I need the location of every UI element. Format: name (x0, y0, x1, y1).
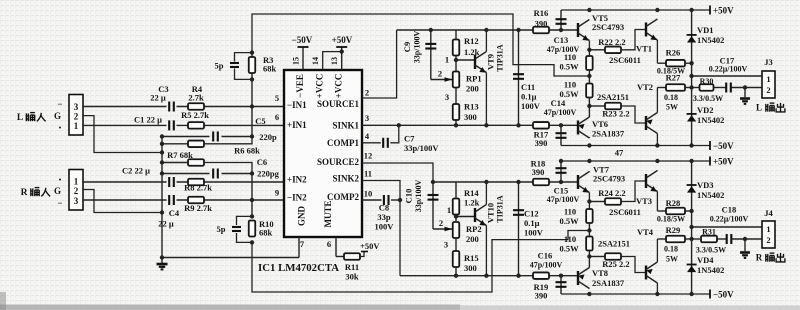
junction 110 midpoint L (587, 74, 591, 78)
svg-text:R30: R30 (700, 77, 714, 86)
resistor R11 30k (344, 253, 360, 260)
wire rail to R12 (455, 30, 457, 40)
svg-text:110: 110 (564, 234, 576, 244)
junction J3 ground tap (743, 85, 747, 89)
wire R6 to -IN1 column (204, 137, 252, 144)
junction VT6 collector/-50V rail (587, 143, 591, 147)
svg-text:R26: R26 (666, 48, 681, 58)
resistor R6 68k (188, 141, 204, 148)
svg-text:C14: C14 (551, 98, 566, 108)
svg-text:110: 110 (564, 80, 576, 90)
wire feedback L (R3 to 110 midpoint) (252, 14, 588, 76)
svg-text:VT3: VT3 (636, 196, 652, 206)
junction bus/R7 row (160, 160, 164, 164)
power +50V tick (rail R) (709, 157, 711, 166)
junction node -IN1 / R3 (250, 104, 254, 108)
svg-text:1N5402: 1N5402 (697, 115, 724, 125)
wire R29 to output column (685, 238, 692, 240)
wire to J3 ground (744, 88, 746, 98)
svg-text:L: L (756, 103, 762, 113)
svg-text:−IN1: −IN1 (287, 100, 307, 110)
wire SINK1 row (399, 124, 578, 126)
svg-text:110: 110 (564, 52, 576, 62)
svg-text:−VEE: −VEE (295, 74, 305, 98)
wire bus to R6 (162, 143, 188, 145)
wire R26 to output column (685, 62, 692, 64)
wire bus to C5 (162, 136, 210, 138)
svg-text:2SC4793: 2SC4793 (593, 174, 625, 184)
power -50V tick (rail R) (709, 290, 711, 299)
resistor R25 2.2 (605, 253, 621, 260)
svg-text:1.2k: 1.2k (464, 198, 480, 208)
wire C2 through R8 to +IN2 (177, 181, 285, 183)
svg-text:C7: C7 (404, 134, 415, 144)
svg-text:−IN2: −IN2 (287, 193, 307, 203)
svg-text:1: 1 (447, 205, 451, 215)
svg-text:+50V: +50V (360, 241, 380, 251)
wire C16 column (560, 276, 562, 294)
svg-text:VT6: VT6 (592, 119, 608, 129)
svg-text:300: 300 (464, 112, 477, 122)
wire RP1 to R13 (455, 88, 457, 105)
RP2 wiper arrow (445, 227, 453, 232)
svg-text:200: 200 (466, 234, 479, 244)
svg-text:0.18/5W: 0.18/5W (657, 215, 685, 224)
resistor R16 390 (533, 27, 549, 34)
junction C9 top (429, 28, 433, 32)
resistor 110 0.5W (3) (586, 209, 593, 223)
junction VT5 emitter/R22 (587, 48, 591, 52)
svg-text:COMP1: COMP1 (327, 138, 359, 148)
wire C3 to R4 to -IN1 node (177, 106, 245, 108)
svg-text:C9: C9 (402, 42, 412, 52)
wire feedback R (R10 to 110 midpoint) (252, 231, 588, 293)
svg-text:22 μ: 22 μ (150, 93, 166, 103)
resistor R7 68k (188, 159, 204, 166)
wire bus to C6 (162, 173, 210, 175)
svg-text:1: 1 (766, 74, 770, 84)
svg-text:R14: R14 (464, 188, 479, 198)
junction output to J3 pin1 (689, 74, 693, 78)
svg-text:0.5W: 0.5W (559, 62, 579, 72)
svg-text:C16: C16 (538, 251, 553, 261)
svg-text:VD1: VD1 (697, 25, 714, 35)
connector J2 R-input box (69, 170, 83, 211)
wire C9 to RP1 wiper (431, 79, 453, 81)
svg-text:3: 3 (74, 196, 79, 206)
capacitor 5p (L) (230, 63, 239, 67)
wire C13 column (560, 10, 562, 30)
resistor R23 2.2 (605, 103, 621, 110)
wire stub to ground (161, 258, 163, 264)
svg-text:C18: C18 (722, 205, 737, 215)
svg-text:1.2k: 1.2k (464, 47, 480, 57)
svg-text:33p/100V: 33p/100V (404, 143, 439, 153)
svg-text:12: 12 (364, 151, 373, 161)
svg-text:C6: C6 (257, 157, 267, 167)
junction VT7 emitter/R24 (587, 199, 591, 203)
svg-text:SOURCE2: SOURCE2 (317, 157, 360, 167)
wire output to R31 (692, 238, 700, 240)
wire 110-4 to VT8 emitter (588, 251, 590, 268)
svg-text:6: 6 (327, 239, 331, 249)
resistor 110 0.5W (2) (586, 84, 593, 98)
wire VT2 emitter to R27 (657, 87, 666, 89)
wire output to R30 (692, 87, 699, 89)
svg-text:390: 390 (532, 167, 545, 177)
resistor R26 0.18/5W (666, 60, 685, 66)
svg-text:R22 2.2: R22 2.2 (598, 37, 625, 47)
svg-text:220pg: 220pg (257, 169, 279, 179)
junction R10 top (250, 214, 254, 218)
power -50V bar (IC) (298, 46, 309, 48)
wire C18 to J4 pin 2 (732, 238, 763, 240)
capacitor C9 33p/100V (425, 44, 436, 49)
capacitor C10 33p/100V (428, 195, 439, 200)
wire R31 to C18 (717, 238, 726, 240)
wire C14 column (560, 125, 562, 145)
wire MUTE pin down (335, 237, 337, 257)
wire R30 to C17 (714, 87, 727, 89)
svg-text:3: 3 (444, 240, 448, 250)
power +50V tick (rail L) (709, 6, 711, 15)
RP1 wiper arrow (445, 77, 453, 82)
wire output/diode column L (691, 10, 693, 146)
capacitor C14 47p/100V (556, 133, 567, 138)
svg-text:11: 11 (364, 169, 372, 179)
svg-text:C2 22 μ: C2 22 μ (122, 166, 150, 176)
resistor R3 68k (249, 57, 256, 73)
junction C15 bottom/source2 row (559, 180, 563, 184)
wire C10 to RP2 wiper (433, 228, 453, 230)
resistor R17 390 (533, 122, 549, 129)
resistor 110 0.5W (1) (586, 56, 593, 70)
wire L-in pin3 to C3 (83, 106, 167, 108)
svg-text:COMP2: COMP2 (327, 192, 359, 202)
wire to R22 (589, 49, 605, 51)
svg-text:+IN2: +IN2 (287, 175, 307, 185)
junction VT10 collector/source2 row (484, 180, 488, 184)
svg-text:47p/100V: 47p/100V (544, 108, 577, 117)
svg-text:22 μ: 22 μ (158, 219, 174, 229)
transistor VT2 2SA2151 (646, 88, 657, 146)
svg-text:RP2: RP2 (466, 224, 482, 234)
junction output node R (689, 237, 693, 241)
svg-text:47: 47 (615, 148, 624, 158)
junction output node L (689, 85, 693, 89)
wire GND pin down (298, 237, 300, 258)
svg-text:R28: R28 (666, 198, 681, 208)
svg-text:1N5402: 1N5402 (697, 190, 724, 200)
wire 110-2 to VT6 emitter (588, 98, 590, 118)
wire +VCC pin 14 jog (323, 52, 342, 70)
resistor R8 2.7k (188, 179, 204, 186)
wire -VEE pin 15 to -50V (302, 47, 304, 70)
capacitor C3 22u (169, 102, 174, 112)
wire R4 node to IC pin5 (244, 106, 284, 108)
resistor 110 0.5W (4) (586, 237, 593, 251)
svg-text:+VCC: +VCC (315, 74, 325, 99)
wire R22 to VT1 base (621, 30, 646, 50)
junction bus/R6 row (160, 142, 164, 146)
junction R28/output column (689, 209, 693, 213)
svg-text:2SC6011: 2SC6011 (609, 55, 641, 65)
svg-text:5W: 5W (666, 255, 678, 264)
svg-text:1N5402: 1N5402 (697, 35, 724, 45)
svg-text:R24 2.2: R24 2.2 (598, 188, 625, 198)
svg-text:+50V: +50V (713, 6, 734, 16)
svg-text:C4: C4 (169, 208, 180, 218)
svg-text:R31: R31 (702, 228, 716, 237)
wire VT1 emitter to R26 (657, 62, 666, 64)
capacitor C6 220p (213, 169, 218, 179)
junction R3 bottom (250, 77, 254, 81)
wire R10 column top (251, 200, 253, 216)
svg-text:R7 68k: R7 68k (167, 150, 193, 160)
wire L-in pin1 to C1 (83, 124, 167, 126)
junction C10/source2 row (431, 180, 435, 184)
wire output to J3 pin 1 (692, 75, 762, 77)
resistor R27 0.18 5W (666, 84, 685, 91)
svg-text:+VCC: +VCC (334, 74, 344, 99)
junction C16 top/sink2 row (559, 274, 563, 278)
wire 110-1 to 110-2 (588, 70, 590, 84)
svg-text:GND: GND (297, 206, 307, 227)
svg-text:0.22μ/100V: 0.22μ/100V (710, 215, 749, 224)
wire to J4 ground (744, 239, 746, 251)
svg-text:0.5W: 0.5W (559, 244, 579, 254)
junction VT9 emitter/sink row (484, 123, 488, 127)
resistor R12 1.2k (453, 40, 460, 56)
wire R11 to +50V (360, 252, 364, 257)
capacitor 5p (R) (232, 227, 241, 231)
transistor VT10 TIP31A (475, 182, 486, 276)
wire SINK2 pin11 drop (362, 181, 400, 276)
svg-text:G: G (54, 186, 61, 196)
svg-text:100V: 100V (375, 222, 395, 232)
junction VT3 collector/+50V rail (655, 159, 659, 163)
junction VT9 collector/source row (484, 28, 488, 32)
wire column down to -IN2 row (251, 174, 253, 201)
svg-text:R29: R29 (666, 225, 681, 235)
svg-text:68k: 68k (259, 228, 273, 238)
junction R26/output column (689, 61, 693, 65)
transistor VT1 2SC6011 (646, 19, 657, 63)
resistor R30 3.3/0.5W (700, 84, 714, 91)
connector J3 box (762, 71, 775, 98)
wire output/diode column R (691, 161, 693, 294)
junction C14 top/sink row (559, 123, 563, 127)
svg-text:VD3: VD3 (697, 180, 714, 190)
junction VT5 collector/+50V rail (587, 8, 591, 12)
svg-text:VD4: VD4 (697, 255, 714, 265)
wire row to R14 (455, 182, 457, 199)
wire C11 column (518, 30, 520, 125)
potentiometer RP2 200 (453, 222, 460, 238)
power +50V bar (IC) (336, 46, 347, 48)
wire 5p cap bottom to R3 (235, 69, 253, 80)
wire +50V rail R (561, 160, 710, 162)
wire C1 through R5 to +IN1 (177, 124, 285, 126)
svg-text:3: 3 (445, 92, 449, 102)
svg-text:5p: 5p (215, 61, 224, 71)
junction R15/SINK2 (454, 274, 458, 278)
svg-text:R6 68k: R6 68k (234, 146, 260, 156)
transistor VT6 2SA1837 (578, 117, 589, 138)
svg-text:2.7k: 2.7k (188, 93, 204, 103)
wire COMP2 pin10 to C8 (362, 199, 382, 201)
junction bus/C6 row (160, 171, 164, 175)
wire 110-3 to 110-4 (588, 223, 590, 237)
svg-text:390: 390 (535, 291, 548, 301)
junction -IN2 / R10 (250, 198, 254, 202)
svg-text:33p/100V: 33p/100V (414, 180, 423, 213)
wire R7 to -IN2 column (204, 163, 252, 174)
wire R-in pin2 ground path (83, 190, 162, 213)
capacitor C11 0.1u/100V (513, 74, 524, 79)
svg-text:33p/100V: 33p/100V (413, 31, 422, 64)
wire VT3 emitter to R28 (657, 210, 666, 212)
svg-text:3: 3 (74, 102, 79, 112)
svg-text:6: 6 (275, 112, 279, 122)
svg-text:47p/100V: 47p/100V (547, 195, 580, 204)
junction ground bus / R-in G (160, 210, 164, 214)
svg-text:1: 1 (74, 121, 79, 131)
capacitor C8 33p (384, 195, 389, 205)
svg-text:R: R (756, 253, 763, 263)
svg-text:1: 1 (74, 177, 79, 187)
wire output to J4 pin 1 (692, 226, 762, 228)
capacitor C1 22u (169, 120, 174, 130)
svg-text:R23 2.2: R23 2.2 (602, 109, 629, 119)
svg-text:2SA1837: 2SA1837 (592, 129, 625, 139)
wire C7 to SINK1 row (390, 125, 399, 143)
junction VD2/-50V rail (689, 143, 693, 147)
svg-text:3.3/0.5W: 3.3/0.5W (693, 94, 723, 103)
wire R3 to 5p cap top (235, 53, 253, 62)
svg-text:C1 22 μ: C1 22 μ (134, 115, 162, 125)
svg-text:C11: C11 (521, 82, 535, 92)
svg-text:1: 1 (766, 224, 770, 234)
svg-text:+50V: +50V (713, 157, 734, 167)
wire bus to R7 (162, 162, 188, 164)
junction VD4/-50V rail (689, 292, 693, 296)
junction 110 midpoint R (587, 228, 591, 232)
svg-text:0.5W: 0.5W (559, 216, 579, 226)
resistor R31 3.3/0.5W (701, 236, 717, 243)
svg-text:RP1: RP1 (466, 74, 482, 84)
wire COMP1 pin4 to C7 (362, 142, 381, 144)
resistor R4 2.7k (188, 103, 204, 110)
junction VT8 collector/-50V rail (587, 292, 591, 296)
wire SOURCE1 row (397, 29, 578, 31)
capacitor C16 47p/100V (556, 282, 567, 287)
wire R25 to VT4 base (621, 257, 646, 273)
svg-text:2: 2 (74, 186, 79, 196)
junction VD3/+50V rail (689, 159, 693, 163)
wire C5 to node column (222, 136, 253, 138)
junction VT7 collector/+50V rail (587, 159, 591, 163)
svg-text:SOURCE1: SOURCE1 (317, 99, 360, 109)
resistor R10 68k (249, 221, 256, 237)
diode VD2 1N5402 (687, 114, 697, 122)
capacitor C13 47p/100V (556, 19, 567, 24)
svg-text:14: 14 (311, 57, 320, 65)
svg-text:C15: C15 (554, 186, 569, 196)
wire C10 column (432, 182, 434, 229)
svg-text:390: 390 (535, 138, 548, 148)
junction VT1 collector/+50V rail (655, 8, 659, 12)
svg-text:VT1: VT1 (636, 44, 652, 54)
transistor VT4 2SA2151 (646, 239, 657, 294)
diode VD4 1N5402 (687, 265, 697, 273)
wire +50V rail L (561, 9, 710, 11)
svg-text:VT8: VT8 (592, 268, 608, 278)
junction VT6 emitter/R23 (587, 104, 591, 108)
junction R3 top (250, 50, 254, 54)
svg-text:33p: 33p (377, 212, 391, 222)
resistor R28 0.18/5W (666, 208, 685, 215)
resistor R5 2.7k (188, 122, 204, 128)
svg-text:300: 300 (464, 263, 477, 273)
svg-text:R12: R12 (464, 36, 479, 46)
junction C13 bottom/source row (559, 28, 563, 32)
junction VT2 collector/-50V rail (655, 143, 659, 147)
svg-text:5: 5 (275, 93, 279, 103)
junction C11 top (516, 28, 520, 32)
svg-text:R9 2.7k: R9 2.7k (184, 203, 212, 213)
transistor VT7 2SC4793 (578, 171, 589, 209)
transistor VT3 2SC6011 (646, 171, 657, 212)
wire SOURCE2 row (433, 181, 578, 183)
junction node 1 (R) (454, 214, 458, 218)
svg-text:TIP31A: TIP31A (496, 44, 505, 71)
junction C8/SINK2 drop (398, 198, 402, 202)
power -50V tick (rail L) (709, 141, 711, 150)
svg-text:R8 2.7k: R8 2.7k (184, 183, 212, 193)
svg-text:15: 15 (292, 57, 301, 65)
power +50V tick (MUTE) (361, 251, 368, 253)
svg-text:L: L (17, 113, 23, 123)
svg-text:C12: C12 (524, 209, 539, 219)
wire C15 column (560, 161, 562, 182)
resistor R9 2.7k (188, 197, 204, 204)
ground bus vertical (161, 137, 163, 259)
svg-text:2: 2 (365, 88, 369, 98)
svg-text:VT9: VT9 (486, 54, 496, 70)
svg-text:−: − (57, 198, 62, 208)
transistor VT8 2SA1837 (578, 268, 589, 289)
svg-text:2SA2151: 2SA2151 (597, 92, 629, 102)
svg-text:2: 2 (438, 69, 442, 79)
wire node1 to VT10 base (456, 216, 475, 218)
svg-text:−: − (57, 99, 62, 109)
svg-text:VD2: VD2 (697, 105, 714, 115)
junction C5/R6 to -IN1 column (250, 134, 254, 138)
diode VD3 1N5402 (687, 185, 697, 193)
svg-text:+IN1: +IN1 (287, 120, 307, 130)
svg-text:VT2: VT2 (637, 82, 653, 92)
junction C12 top (516, 180, 520, 184)
svg-text:R: R (21, 188, 28, 198)
svg-text:9: 9 (275, 188, 279, 198)
svg-text:0.1μ: 0.1μ (524, 218, 540, 228)
wire C4 through R9 to -IN2 (177, 199, 285, 201)
wire VT4 emitter to R29 (657, 238, 666, 240)
transistor VT9 TIP31A (475, 30, 486, 125)
wire SINK2 row (400, 275, 578, 277)
potentiometer RP1 200 (453, 72, 460, 88)
